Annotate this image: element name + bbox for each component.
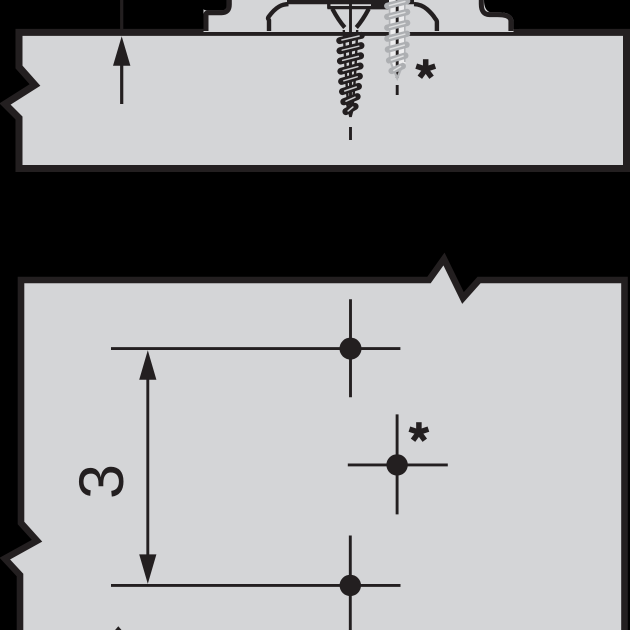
euro screw S2 thread turns	[387, 1, 407, 71]
euro screw S2 centerline	[396, 0, 399, 78]
euro screw S2 (pre-mounted, gray) white core	[389, 0, 405, 64]
dimension arrow down	[139, 554, 156, 584]
hole H3 cross v-line	[349, 536, 352, 630]
screw S1 centerline dash below tip	[349, 127, 352, 140]
hole H2 cross h-line	[348, 463, 448, 466]
dimension arrow up	[139, 350, 156, 380]
euro screw S2 centerline dash	[396, 85, 399, 95]
plate left wing outline	[206, 0, 229, 31]
black bg notch above right wing shelf	[484, 0, 519, 29]
screw S1 shank taper edges	[344, 30, 357, 105]
euro screw S2 core edges	[390, 2, 405, 62]
hole H1 cross h-line / extension line	[111, 347, 400, 350]
dimension arrow head pointing up at surface	[113, 36, 130, 66]
hole H1 dot	[340, 338, 362, 360]
hole H1 cross v-line	[349, 299, 352, 397]
plate hump plateau (cut by image top)	[287, 0, 414, 4]
hole H3 cross h-line / extension line	[111, 584, 401, 587]
panel (plan view)	[5, 259, 625, 630]
screw S1 centerline	[349, 0, 352, 115]
plate surface solid band right of head	[371, 0, 390, 9]
black bg notch above left wing shelf	[204, 0, 227, 10]
dimension arrow tail	[120, 64, 123, 104]
hole H2 dot	[386, 454, 407, 475]
dimension arrow (board thickness) line above surface	[120, 0, 123, 29]
asterisk (plan view)	[409, 422, 430, 442]
svg-text:3: 3	[67, 464, 137, 499]
small arrow tip at bottom edge	[115, 626, 121, 630]
mounting plate cross-section: gray zone	[204, 0, 514, 32]
screw S1 countersink funnel right	[356, 9, 369, 28]
screw S1 thread turns	[340, 35, 362, 111]
screw S1 tip	[347, 104, 354, 117]
screw S1 head (countersunk, recessed)	[327, 1, 330, 9]
screw S1 countersink funnel left	[332, 9, 345, 28]
plate hump left foot	[268, 4, 288, 31]
asterisk (top view)	[415, 59, 436, 79]
dimension 3 vertical line	[146, 378, 149, 556]
plate hump right foot	[414, 4, 437, 31]
hole H3 dot	[340, 575, 361, 596]
euro screw S2 tip outline	[391, 63, 403, 78]
plate right wing outline	[481, 0, 511, 31]
board (cross-section side view, with break zigzag)	[5, 32, 627, 168]
hole H2 cross v-line	[396, 414, 399, 514]
